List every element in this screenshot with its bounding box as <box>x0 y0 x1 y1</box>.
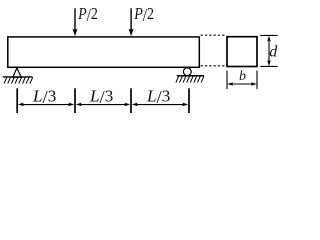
cross-section square <box>227 37 257 67</box>
b extension line left <box>226 71 228 90</box>
roller support right (circle) <box>183 68 191 76</box>
hatching left <box>4 77 33 83</box>
L/3 dimension line 3 with arrows <box>132 103 188 107</box>
b dimension line with arrows <box>227 82 257 86</box>
dimension tick 4 <box>188 88 190 113</box>
hatching right <box>176 76 204 82</box>
dimension tick 2 <box>74 88 76 113</box>
d extension line top <box>260 34 277 36</box>
svg-text:L/3: L/3 <box>32 86 56 107</box>
dimension tick 3 <box>130 88 132 113</box>
b extension line right <box>256 71 258 90</box>
svg-text:P/2: P/2 <box>77 4 98 25</box>
d extension line bottom <box>260 65 277 67</box>
svg-text:P/2: P/2 <box>133 4 154 25</box>
beam outline <box>8 37 200 67</box>
dashed projection line top <box>201 34 225 36</box>
L/3 dimension line 2 with arrows <box>76 103 130 107</box>
svg-text:L/3: L/3 <box>146 86 170 107</box>
ground line right <box>177 75 204 77</box>
d dimension line with arrows <box>267 36 271 67</box>
dimension tick 1 <box>16 88 18 113</box>
ground line left <box>3 76 33 78</box>
L/3 dimension line 1 with arrows <box>18 103 74 107</box>
svg-text:b: b <box>239 69 246 84</box>
pin support left (triangle) <box>13 68 21 77</box>
svg-text:L/3: L/3 <box>89 86 113 107</box>
load arrow P/2 right <box>129 8 134 36</box>
svg-text:d: d <box>269 44 278 61</box>
load arrow P/2 left <box>73 8 78 36</box>
dashed projection line bottom <box>201 65 225 67</box>
